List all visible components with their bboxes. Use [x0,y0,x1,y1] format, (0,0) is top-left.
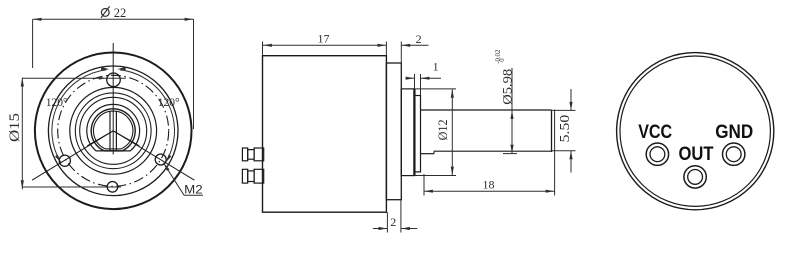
front view hub circle with flat [87,104,140,151]
17 arrow left [263,44,272,47]
side view step right edge thick [413,89,415,176]
arc arrowhead top-right [117,67,126,70]
Ø22 extension line right [193,19,195,129]
2 top extension left [385,42,387,56]
svg-text:2: 2 [390,215,396,229]
screw hole right M2 [155,154,166,165]
front view ring circle 2 [80,97,147,164]
front view step circle Ø12 [70,87,157,174]
Ø15 extension line bottom [22,186,121,188]
Ø5.98 extension bottom [503,153,517,155]
Ø15 extension arrow at hole [99,77,106,80]
pin GND [723,143,745,165]
svg-text:17: 17 [318,32,330,46]
Ø5.98 arrow up [510,110,513,119]
label Ø22 [101,9,109,17]
angular dimension arc left 120° [52,70,106,163]
front view vertical centerline [112,43,114,155]
17 extension left [262,42,264,56]
side view body [263,56,387,213]
shaft flat edge line [434,150,552,152]
shaft flat step [433,151,435,154]
1 dimension tail [421,77,442,79]
Ø15 arrow bottom [21,180,24,189]
Ø12 arrow down [451,167,454,176]
svg-text:2: 2 [416,32,422,46]
18 arrow right [546,190,555,193]
shaft end face [551,110,553,152]
M2 leader arrow [164,163,170,171]
Ø15 dimension line [21,78,23,190]
1 arrow right [421,77,430,80]
svg-text:Ø15: Ø15 [7,113,23,142]
front view boss circle Ø18 [48,66,178,196]
18 arrow left [424,190,433,193]
front view shaft slot [109,112,111,151]
svg-text:Ø5.98: Ø5.98 [501,69,515,105]
rear view outer circle [617,53,774,210]
front view left hole radial centerline [32,131,113,180]
Ø12 extension bottom [415,175,457,177]
svg-text:22: 22 [114,6,127,20]
rear view inner circle [620,56,770,206]
2 bottom extension left [386,212,388,232]
18 extension right [554,110,556,196]
front view ring circle [75,93,151,169]
svg-text:1: 1 [433,60,439,74]
Ø5.98 dimension line [511,68,513,153]
arc arrowhead top-left [101,67,110,70]
2 top extension right [400,42,402,64]
2 bottom dim line right [401,228,417,230]
17 arrow right [378,44,387,47]
1 dimension line [406,77,415,79]
Ø12 extension top [401,88,456,90]
svg-text:120°: 120° [46,97,68,109]
svg-text:VCC: VCC [638,122,672,143]
shaft top edge [421,109,552,111]
svg-text:5.50: 5.50 [557,115,572,143]
Ø15 arrow top [21,78,24,87]
2 bottom extension right [400,200,402,233]
M2 leader line [164,163,185,195]
5.50 dim line below [570,151,572,173]
Ø22 arrow left [33,18,42,21]
screw hole top [107,73,121,87]
svg-text:GND: GND [715,122,753,143]
arc arrowhead bottom-right [166,155,172,163]
2 bottom arrow right [401,227,410,230]
screw hole bottom [107,182,118,193]
2 bottom dim line left [373,228,388,230]
2 top arrow right [402,44,411,47]
Ø22 arrow right [185,18,194,21]
5.50 extension bottom [552,150,576,152]
connector pin upper [242,148,247,161]
2 bottom arrow left [379,227,388,230]
svg-text:Ø12: Ø12 [435,119,450,140]
17 dimension line [263,44,386,46]
svg-text:OUT: OUT [679,144,714,165]
angular dimension arc right 120° [120,70,174,163]
pin OUT [684,166,706,188]
1 extension left [414,74,416,89]
Ø12 dimension line [451,89,453,175]
front view shaft circle Ø6 with flat [91,109,135,151]
screw hole left M2 [59,155,70,166]
front view hub spokes [87,131,113,146]
5.50 arrow top [569,102,572,111]
Ø15 extension line top [22,77,126,79]
Ø22 extension line left [32,19,34,68]
5.50 dim line above [570,89,572,110]
shaft root bottom edge [421,153,435,155]
svg-text:18: 18 [483,178,495,192]
arc arrowhead bottom-left [55,155,61,163]
side view flange Ø18x2 [386,63,401,200]
label Ø5.98 with tolerance [495,49,515,105]
1 arrow left [406,77,415,80]
side view step Ø12 [401,89,414,176]
front view right hole radial centerline [113,131,194,180]
connector pin lower [242,169,247,183]
18 extension left [423,174,425,196]
Ø22 dimension line [33,18,194,20]
pin VCC [646,143,668,165]
side view collar [415,96,421,172]
front view shaft chamfer circle with flat [94,111,133,149]
svg-text:120°: 120° [158,97,180,109]
5.50 arrow bottom [569,151,572,160]
Ø12 arrow up [451,89,454,98]
front view bolt circle Ø15 [58,75,169,186]
2 top dimension tail [401,44,428,46]
svg-text:-0.02: -0.02 [495,49,502,64]
front view body outer circle Ø22 [35,53,192,210]
18 dimension line [424,190,555,192]
1 extension right [420,74,422,96]
svg-text:M2: M2 [184,184,203,196]
5.50 extension top [552,109,576,111]
Ø5.98 arrow down [510,145,513,154]
